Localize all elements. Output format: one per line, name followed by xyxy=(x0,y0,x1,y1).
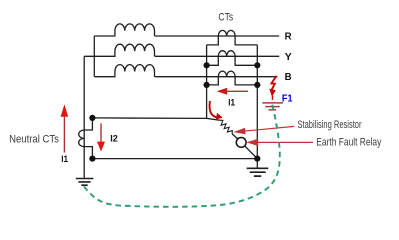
svg-text:Stabilising Resistor: Stabilising Resistor xyxy=(298,119,362,131)
svg-text:F1: F1 xyxy=(282,93,293,104)
svg-text:R: R xyxy=(285,31,292,43)
svg-text:I1: I1 xyxy=(61,154,68,165)
wire relay top conductor xyxy=(92,117,206,120)
winding L2 (Y phase) xyxy=(84,44,154,56)
wire right secondary bus xyxy=(256,45,258,159)
wire B phase line xyxy=(155,76,278,78)
wire left secondary bus xyxy=(206,45,208,119)
wire CT R secondary leads xyxy=(207,36,258,45)
current arrow curved into resistor xyxy=(209,101,222,120)
svg-text:Neutral CTs: Neutral CTs xyxy=(9,133,59,145)
fault F1 earth symbol xyxy=(262,103,283,110)
svg-text:CTs: CTs xyxy=(218,11,233,23)
resistor stabilising zigzag xyxy=(220,120,233,134)
wire resistor to relay xyxy=(232,134,238,139)
neutral CT secondary coil xyxy=(79,130,85,147)
wire Y phase line xyxy=(155,55,280,57)
wire resistor feed xyxy=(207,118,220,120)
fault F1 lightning bolt xyxy=(269,76,276,100)
wire relay to node xyxy=(245,146,258,159)
current arrow I2 (down) xyxy=(97,123,105,151)
wire neutral CT secondary leads xyxy=(84,118,92,159)
wire CT B secondary leads xyxy=(207,77,258,85)
svg-text:I1: I1 xyxy=(228,97,235,108)
wire R phase line xyxy=(155,35,280,37)
winding L3 (B phase) xyxy=(94,65,154,77)
winding L1 (R phase) xyxy=(94,24,154,36)
current arrow I1 neutral (up) xyxy=(61,104,69,152)
CT B secondary coil xyxy=(218,71,235,77)
svg-text:I2: I2 xyxy=(110,134,118,145)
ground relay xyxy=(247,168,269,176)
node junction dots xyxy=(89,62,260,161)
wire star link windings 1-3 xyxy=(93,36,95,77)
earth fault current path (green dashed) xyxy=(83,105,280,207)
CT R secondary coil xyxy=(218,30,235,36)
svg-text:B: B xyxy=(285,71,292,83)
label pointer arrow stabilising resistor xyxy=(233,126,294,134)
current arrow I1 secondary (left) xyxy=(217,88,248,95)
label pointer arrow earth fault relay xyxy=(246,139,313,146)
svg-text:Earth Fault Relay: Earth Fault Relay xyxy=(316,136,381,148)
wire neutral conductor xyxy=(83,56,85,178)
wire relay ground stem xyxy=(256,159,258,168)
CT Y secondary coil xyxy=(218,51,235,57)
wire CT Y secondary leads xyxy=(207,56,258,65)
ground neutral xyxy=(76,179,94,186)
svg-text:Y: Y xyxy=(285,51,292,63)
wire relay bottom conductor xyxy=(92,158,257,160)
earth fault relay U1 circle xyxy=(236,138,246,148)
